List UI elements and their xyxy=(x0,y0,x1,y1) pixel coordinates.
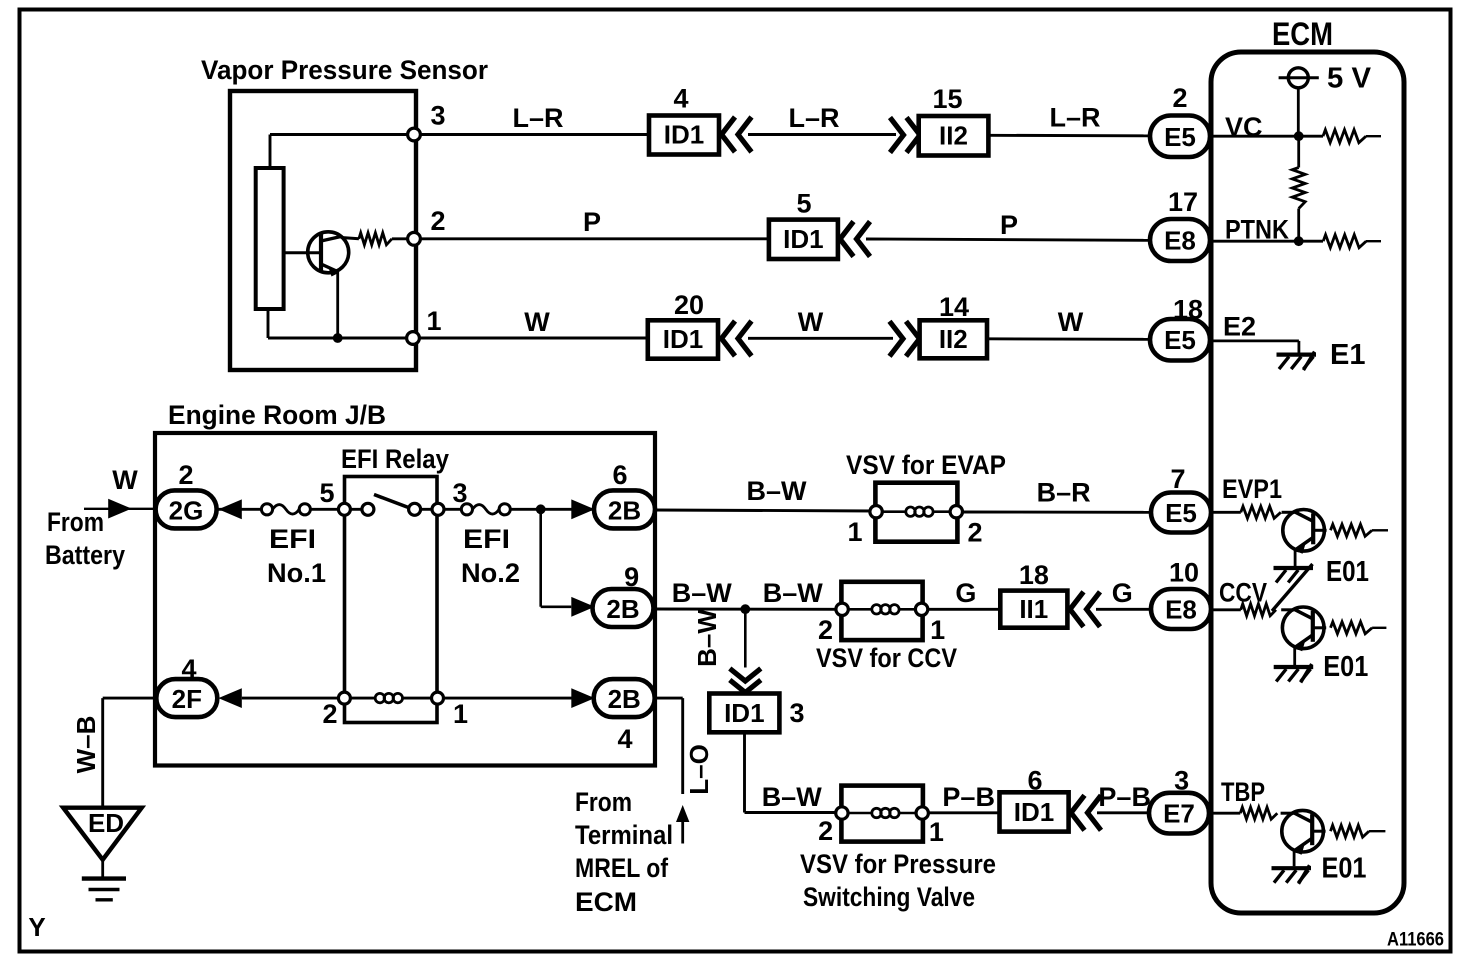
label Engine Room J/B xyxy=(168,400,386,430)
wire 2F to relay coil xyxy=(242,697,345,700)
svg-text:2: 2 xyxy=(1172,83,1187,113)
label W-B (rotated) xyxy=(71,716,101,774)
relay terminal 3 xyxy=(432,503,444,515)
wire 5V to VC node xyxy=(1297,88,1300,136)
connector ID1 (3) xyxy=(709,694,779,733)
transistor (EVP1 driver) xyxy=(1282,510,1327,568)
wire W pin1 to ID1 xyxy=(419,337,648,340)
svg-text:Terminal: Terminal xyxy=(575,820,673,850)
EFI relay box xyxy=(345,477,438,723)
svg-text:II2: II2 xyxy=(939,324,968,354)
svg-text:2: 2 xyxy=(430,206,445,236)
wire relay to fuse EFI No.2 xyxy=(444,508,467,511)
terminal 2G xyxy=(156,490,217,528)
ECM label xyxy=(1272,16,1333,52)
terminal 2B (6) xyxy=(594,490,655,528)
label W (battery wire) xyxy=(112,465,138,495)
resistor CCV collector xyxy=(1331,622,1387,634)
svg-text:2G: 2G xyxy=(169,496,204,526)
svg-text:E01: E01 xyxy=(1322,853,1367,885)
label P-B (1) xyxy=(942,782,995,812)
terminal 2B pin 6 label xyxy=(612,460,627,490)
terminal 2F xyxy=(156,679,217,717)
svg-text:1: 1 xyxy=(930,615,945,645)
wire junction to ID1-3 xyxy=(744,609,747,667)
wire junction down to 2B-9 xyxy=(541,509,572,607)
svg-text:3: 3 xyxy=(430,101,445,131)
label G (1) xyxy=(955,578,976,608)
label VSV for CCV xyxy=(816,643,957,673)
svg-text:P–B: P–B xyxy=(942,782,995,812)
svg-text:E1: E1 xyxy=(1330,339,1365,371)
terminal 2F pin 4 label xyxy=(181,654,196,684)
svg-text:W: W xyxy=(1058,307,1084,337)
connector ID1 (row1) xyxy=(649,116,719,155)
wire VC inside ECM xyxy=(1210,135,1323,138)
svg-text:ID1: ID1 xyxy=(663,324,703,354)
svg-text:ECM: ECM xyxy=(1272,16,1333,52)
label From Battery xyxy=(45,507,125,570)
relay coil terminal 2 label xyxy=(322,699,337,729)
svg-text:B–W: B–W xyxy=(672,578,733,608)
wire 2B-6 to VSV EVAP xyxy=(654,510,876,511)
svg-text:G: G xyxy=(1112,578,1133,608)
connector ID1 pin 5 label xyxy=(796,189,811,219)
terminal 2B pin 9 label xyxy=(624,562,639,592)
svg-text:E01: E01 xyxy=(1323,651,1368,683)
connector arrows ID1 row2 xyxy=(840,222,870,257)
wire 2B-9 to VSV CCV xyxy=(653,608,842,611)
svg-text:W–B: W–B xyxy=(71,716,101,774)
VSV for CCV box xyxy=(836,582,928,640)
terminal E5 pin 18 label xyxy=(1173,295,1203,325)
wire VC to divider resistor xyxy=(1297,136,1300,167)
arrow into 2F xyxy=(218,688,241,708)
wire 2F to ED xyxy=(103,698,157,808)
connector ID1 pin 3 label xyxy=(789,698,804,728)
label EFI No.2 xyxy=(461,524,520,588)
svg-text:From: From xyxy=(575,787,632,817)
svg-text:2F: 2F xyxy=(172,684,202,714)
label EFI No.1 xyxy=(267,524,326,588)
ground E01 label (EVP1) xyxy=(1326,556,1369,588)
resistor PTNK output xyxy=(1323,235,1381,248)
svg-text:ID1: ID1 xyxy=(1014,797,1054,827)
label G (2) xyxy=(1112,578,1133,608)
svg-text:II2: II2 xyxy=(939,121,968,151)
ground E1 label xyxy=(1330,339,1365,371)
svg-text:2: 2 xyxy=(818,615,833,645)
VSV for PSV box xyxy=(836,786,929,842)
pin 3 label xyxy=(430,101,445,131)
connector ID1 (row3) xyxy=(648,320,718,358)
svg-text:MREL of: MREL of xyxy=(575,853,669,883)
svg-text:E8: E8 xyxy=(1164,226,1196,256)
svg-text:5: 5 xyxy=(796,189,811,219)
connector II2 pin 14 label xyxy=(939,292,969,322)
wire relay contact left xyxy=(344,508,368,511)
wire TBP inside ECM xyxy=(1209,812,1240,815)
relay coil xyxy=(375,693,402,702)
wire pin3 to sensor resistor xyxy=(270,135,414,170)
label L-R (3) xyxy=(1049,103,1100,133)
svg-text:EFI: EFI xyxy=(463,524,510,554)
svg-text:7: 7 xyxy=(1170,464,1185,494)
connector arrows II2 row3 xyxy=(890,321,920,356)
svg-text:Engine Room J/B: Engine Room J/B xyxy=(168,400,386,430)
svg-text:W: W xyxy=(112,465,138,495)
node EVP1 label xyxy=(1222,474,1282,504)
ground E01 (CCV) xyxy=(1274,664,1314,683)
svg-text:P: P xyxy=(583,207,601,237)
ground E01 (EVP1) xyxy=(1272,564,1313,611)
svg-text:2: 2 xyxy=(178,460,193,490)
wire divider to PTNK node xyxy=(1297,209,1300,242)
svg-text:L–R: L–R xyxy=(512,103,563,133)
svg-text:2: 2 xyxy=(322,699,337,729)
svg-text:L–R: L–R xyxy=(788,103,839,133)
wire pin1 to sensor resistor bottom xyxy=(268,309,413,338)
arrow into 2B-9 xyxy=(571,597,594,617)
page code Y xyxy=(28,912,45,942)
wire ED to ground xyxy=(101,860,104,879)
resistor (sensor element) xyxy=(256,168,284,309)
pin 2 (sensor connector) xyxy=(408,232,421,245)
svg-text:E5: E5 xyxy=(1164,325,1196,355)
svg-text:14: 14 xyxy=(939,292,969,322)
node E2 label xyxy=(1223,312,1256,342)
label 5 V xyxy=(1327,63,1372,95)
pin 3 (sensor connector) xyxy=(408,128,421,141)
label B-W (rotated) xyxy=(692,609,722,667)
resistor EVP1 base xyxy=(1241,506,1281,518)
connector arrows II1 xyxy=(1070,592,1100,627)
wire coil lead right xyxy=(402,697,438,700)
wire L-R pin3 to ID1 xyxy=(420,133,649,136)
svg-text:2: 2 xyxy=(967,518,982,548)
node CCV label xyxy=(1219,578,1267,608)
arrow from battery xyxy=(108,499,131,519)
label From Terminal MREL of ECM xyxy=(575,787,673,917)
junction PTNK node xyxy=(1294,236,1304,246)
terminal E7 (TBP) xyxy=(1149,793,1209,834)
connector arrows ID1 row1 xyxy=(722,117,752,152)
svg-text:5 V: 5 V xyxy=(1327,63,1372,95)
connector ID1 (row2) xyxy=(769,220,838,259)
terminal E5 pin 2 label xyxy=(1172,83,1187,113)
fuse EFI No.2 xyxy=(461,504,510,515)
wire E2 to ground xyxy=(1210,341,1299,354)
svg-text:No.1: No.1 xyxy=(267,558,326,588)
svg-text:G: G xyxy=(955,578,976,608)
svg-text:VSV for EVAP: VSV for EVAP xyxy=(846,450,1006,480)
connector arrows ID1 row3 xyxy=(722,321,752,356)
svg-text:15: 15 xyxy=(932,84,962,114)
resistor CCV base xyxy=(1241,604,1276,616)
svg-text:Y: Y xyxy=(28,912,45,942)
label VSV for EVAP xyxy=(846,450,1006,480)
VSV CCV terminal 1 label xyxy=(930,615,945,645)
relay coil terminal 2 xyxy=(338,692,350,704)
svg-text:E01: E01 xyxy=(1326,556,1369,588)
VSV EVAP terminal 1 label xyxy=(847,517,862,547)
svg-text:2: 2 xyxy=(818,816,833,846)
wire PTNK inside ECM xyxy=(1210,240,1323,243)
wire sensor resistor base tap xyxy=(284,251,321,254)
wire from battery xyxy=(84,508,156,510)
svg-text:Vapor Pressure Sensor: Vapor Pressure Sensor xyxy=(201,55,488,85)
arrow into 2B-6 xyxy=(571,499,594,519)
terminal E5 (E2) xyxy=(1150,319,1210,361)
svg-text:EFI: EFI xyxy=(269,524,316,554)
terminal E8 (PTNK) xyxy=(1150,219,1210,261)
svg-text:No.2: No.2 xyxy=(461,558,520,588)
svg-text:II1: II1 xyxy=(1019,594,1048,624)
svg-text:L–R: L–R xyxy=(1049,103,1100,133)
connector ID1 (6) xyxy=(1000,792,1069,831)
svg-text:B–W: B–W xyxy=(747,476,808,506)
resistor TBP base xyxy=(1240,807,1277,819)
arrow into 2B-4 xyxy=(571,688,594,708)
svg-text:VSV for Pressure: VSV for Pressure xyxy=(800,849,996,879)
node VC label xyxy=(1225,112,1263,142)
terminal E5 pin 7 label xyxy=(1170,464,1185,494)
ground triangle ED xyxy=(63,808,142,860)
terminal E5 (VC) xyxy=(1150,116,1210,158)
wire W II2 to E5 xyxy=(987,337,1151,340)
svg-text:3: 3 xyxy=(789,698,804,728)
label B-W (CCV row 2) xyxy=(763,578,824,608)
terminal 2B (4) xyxy=(594,679,655,717)
wire relay contact right xyxy=(415,508,438,511)
pin 1 label xyxy=(426,306,441,336)
wire ID1-3 to VSV PSV xyxy=(745,732,842,812)
svg-text:B–W: B–W xyxy=(692,609,722,667)
node TBP label xyxy=(1221,777,1265,807)
junction node after fuse2 xyxy=(536,504,546,514)
svg-text:1: 1 xyxy=(847,517,862,547)
wire 2G to fuse EFI No.1 xyxy=(216,508,267,511)
relay switch arm xyxy=(374,495,409,508)
svg-text:W: W xyxy=(798,307,824,337)
svg-text:E2: E2 xyxy=(1223,312,1256,342)
wire fuse2 to 2B-6 xyxy=(510,508,595,511)
terminal E5 (EVP1) xyxy=(1151,493,1211,533)
terminal E8 pin 10 label xyxy=(1169,558,1199,588)
svg-text:L–O: L–O xyxy=(684,744,714,795)
label B-R xyxy=(1037,478,1091,508)
label P (2) xyxy=(1000,210,1018,240)
transistor (TBP driver) xyxy=(1281,810,1326,866)
label VSV for Pressure Switching Valve xyxy=(800,849,996,912)
connector II2 pin 15 label xyxy=(932,84,962,114)
resistor EVP1 collector xyxy=(1331,524,1389,536)
label B-W (CCV row 1) xyxy=(672,578,733,608)
label P (1) xyxy=(583,207,601,237)
svg-text:TBP: TBP xyxy=(1221,777,1265,807)
svg-text:P: P xyxy=(1000,210,1018,240)
relay contact pole left xyxy=(362,503,374,515)
relay terminal 3 label xyxy=(452,478,467,508)
label W (3) xyxy=(1058,307,1084,337)
ground (ED) xyxy=(82,879,126,900)
pin 2 label xyxy=(430,206,445,236)
svg-text:P–B: P–B xyxy=(1098,782,1151,812)
ECM box xyxy=(1211,52,1404,913)
wire coil lead left xyxy=(344,697,375,700)
terminal E7 pin 3 label xyxy=(1174,766,1189,796)
connector arrows II2 row1 xyxy=(890,118,920,153)
ground E01 label (CCV) xyxy=(1323,651,1368,683)
svg-text:4: 4 xyxy=(617,724,632,754)
ground E1 xyxy=(1277,352,1317,371)
engine room J/B box xyxy=(155,433,655,766)
wire CCV inside ECM xyxy=(1211,608,1241,611)
power symbol 5V xyxy=(1279,68,1319,88)
node PTNK label xyxy=(1225,215,1289,245)
svg-text:B–W: B–W xyxy=(763,578,824,608)
label L-O (rotated) xyxy=(684,744,714,795)
svg-text:2B: 2B xyxy=(608,496,641,526)
svg-text:1: 1 xyxy=(426,306,441,336)
transistor (CCV driver) xyxy=(1281,607,1326,666)
VSV for EVAP box xyxy=(870,483,963,542)
wire VSV PSV to ID1-6 xyxy=(928,811,999,814)
VSV EVAP terminal 2 label xyxy=(967,518,982,548)
relay contact pole right xyxy=(409,503,421,515)
svg-text:From: From xyxy=(47,507,104,537)
wire W ID1 to II2 xyxy=(748,337,893,340)
wire resistor to pin2 xyxy=(392,237,414,240)
svg-text:17: 17 xyxy=(1168,187,1198,217)
svg-text:Switching Valve: Switching Valve xyxy=(803,882,975,912)
svg-text:18: 18 xyxy=(1019,560,1049,590)
VSV PSV terminal 2 label xyxy=(818,816,833,846)
junction dot sensor emitter xyxy=(333,333,343,343)
relay terminal 5 xyxy=(338,503,350,515)
wire VSV EVAP to E5-7 xyxy=(963,511,1152,514)
terminal 2B (9) xyxy=(593,589,654,627)
svg-text:E8: E8 xyxy=(1165,594,1197,624)
junction VC node xyxy=(1294,131,1304,141)
svg-text:2B: 2B xyxy=(606,594,639,624)
label W (2) xyxy=(798,307,824,337)
transistor Q (sensor) xyxy=(308,232,359,338)
svg-text:ID1: ID1 xyxy=(664,120,704,150)
svg-text:E7: E7 xyxy=(1163,799,1195,829)
svg-text:10: 10 xyxy=(1169,558,1199,588)
svg-text:EVP1: EVP1 xyxy=(1222,474,1282,504)
wire L-R II2 to E5 xyxy=(988,134,1151,137)
wire relay coil to 2B-4 xyxy=(444,697,594,700)
label B-W (PSV row) xyxy=(762,782,823,812)
svg-text:1: 1 xyxy=(929,817,944,847)
svg-text:W: W xyxy=(524,307,550,337)
connector arrows ID1-3 xyxy=(730,669,761,693)
ground E01 label (TBP) xyxy=(1322,853,1367,885)
terminal 2B pin 4 label xyxy=(617,724,632,754)
svg-text:ID1: ID1 xyxy=(783,224,823,254)
resistor VC pullup output xyxy=(1323,130,1381,143)
vapor pressure sensor box xyxy=(230,91,416,370)
wire 2B-4 to MREL xyxy=(655,698,683,794)
EFI Relay label xyxy=(341,444,449,474)
connector II2 (row1) xyxy=(919,116,989,156)
drawing number A11666 xyxy=(1387,929,1444,951)
svg-text:B–R: B–R xyxy=(1037,478,1091,508)
wire fuse1 to relay xyxy=(310,508,344,511)
svg-text:B–W: B–W xyxy=(762,782,823,812)
label L-R (1) xyxy=(512,103,563,133)
wire II1 to E8-10 xyxy=(1096,608,1151,611)
svg-text:EFI Relay: EFI Relay xyxy=(341,444,449,474)
terminal 2G pin 2 label xyxy=(178,460,193,490)
svg-text:5: 5 xyxy=(319,478,334,508)
terminal E8 pin 17 label xyxy=(1168,187,1198,217)
ground E01 (TBP) xyxy=(1272,865,1312,884)
relay terminal 5 label xyxy=(319,478,334,508)
connector ID1 pin 4 label xyxy=(673,84,688,114)
relay coil terminal 1 label xyxy=(453,699,468,729)
resistor (sensor collector) xyxy=(359,233,392,245)
svg-text:2B: 2B xyxy=(608,684,641,714)
VSV CCV terminal 2 label xyxy=(818,615,833,645)
svg-text:E5: E5 xyxy=(1165,498,1197,528)
junction node B-W xyxy=(740,604,750,614)
fuse EFI No.1 xyxy=(261,504,310,515)
wire L-R ID1 to II2 xyxy=(748,133,896,136)
label Vapor Pressure Sensor xyxy=(201,55,488,85)
connector II1 xyxy=(1000,591,1067,628)
svg-text:20: 20 xyxy=(674,290,704,320)
resistor TBP collector xyxy=(1331,825,1386,837)
svg-text:A11666: A11666 xyxy=(1387,929,1444,951)
VSV PSV terminal 1 label xyxy=(929,817,944,847)
wire ID1-6 to E7 xyxy=(1097,811,1149,814)
arrow from MREL xyxy=(676,805,689,844)
connector II2 (row3) xyxy=(920,320,987,358)
svg-text:1: 1 xyxy=(453,699,468,729)
svg-text:6: 6 xyxy=(612,460,627,490)
svg-text:ID1: ID1 xyxy=(724,698,764,728)
connector ID1 pin 6 label xyxy=(1027,766,1042,796)
svg-text:ED: ED xyxy=(88,808,124,838)
connector ID1 pin 20 label xyxy=(674,290,704,320)
connector II1 pin 18 label xyxy=(1019,560,1049,590)
wire P ID1 to E8 xyxy=(866,239,1151,240)
connector arrows ID1-6 xyxy=(1071,795,1101,830)
label L-R (2) xyxy=(788,103,839,133)
label W (1) xyxy=(524,307,550,337)
svg-text:4: 4 xyxy=(673,84,688,114)
label B-W (EVAP row) xyxy=(747,476,808,506)
relay coil terminal 1 xyxy=(432,692,444,704)
wire VSV CCV to II1 xyxy=(928,608,1001,611)
svg-text:Battery: Battery xyxy=(45,540,125,570)
arrow into 2G xyxy=(218,499,241,519)
pin 1 (sensor connector) xyxy=(407,332,420,345)
resistor divider (vertical) xyxy=(1292,168,1305,209)
svg-text:VSV for CCV: VSV for CCV xyxy=(816,643,957,673)
svg-text:ECM: ECM xyxy=(575,887,637,917)
wire P pin2 to ID1 xyxy=(420,237,769,240)
wire EVP1 inside ECM xyxy=(1211,511,1241,514)
svg-text:E5: E5 xyxy=(1164,122,1196,152)
terminal E8 (CCV) xyxy=(1151,589,1211,629)
label P-B (2) xyxy=(1098,782,1151,812)
